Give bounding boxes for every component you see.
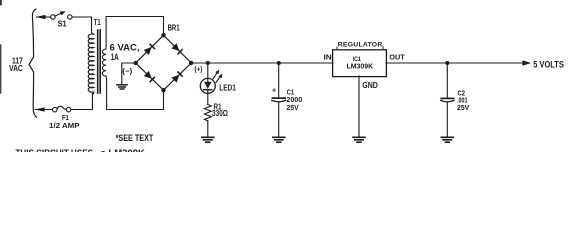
- svg-text:25V: 25V: [286, 103, 299, 112]
- svg-text:LM309K: LM309K: [347, 61, 374, 70]
- wire: tap to LED: [207, 63, 209, 78]
- ground (regulator): [353, 137, 365, 142]
- capacitor C2: [446, 63, 448, 98]
- ground (R1): [202, 137, 214, 142]
- svg-text:+: +: [272, 86, 277, 95]
- svg-text:5 VOLTS: 5 VOLTS: [533, 60, 564, 70]
- svg-text:(+): (+): [194, 64, 202, 73]
- capacitor C1: [278, 63, 280, 98]
- node: C1 tap: [277, 61, 281, 65]
- svg-text:REGULATOR: REGULATOR: [338, 41, 383, 48]
- node: LED tap: [206, 61, 210, 65]
- wire: fuse to primary bottom: [71, 94, 93, 110]
- transformer core: [97, 30, 99, 93]
- page border artifact top: [0, 0, 2, 5]
- diode bottom-right: [171, 71, 183, 83]
- transformer T1 primary winding: [88, 34, 94, 94]
- resistor R1: [204, 105, 211, 121]
- AC line brace: [29, 9, 37, 117]
- switch S1: [51, 15, 55, 19]
- diode top-left: [144, 43, 156, 55]
- fuse F1: [53, 107, 58, 112]
- wire: secondary top rail to bridge: [106, 17, 163, 36]
- svg-text:IN: IN: [324, 52, 332, 61]
- svg-text:330Ω: 330Ω: [212, 109, 228, 118]
- wire: bottom cord with plug arrow: [35, 109, 52, 111]
- wire: S1 to transformer primary: [72, 17, 94, 34]
- LED1 light arrows: [213, 73, 217, 79]
- node: bridge bottom: [161, 88, 165, 92]
- svg-text:LED1: LED1: [219, 84, 236, 93]
- svg-text:GND: GND: [362, 81, 378, 90]
- svg-text:1/2 AMP: 1/2 AMP: [49, 121, 80, 130]
- wire: regulator gnd: [358, 76, 360, 137]
- svg-text:OUT: OUT: [389, 52, 405, 61]
- wire: regulator out to output arrow: [386, 62, 524, 64]
- wire R1 to ground: [207, 121, 209, 137]
- svg-text:(−): (−): [122, 66, 133, 75]
- svg-text:VAC: VAC: [9, 63, 23, 73]
- svg-text:BR1: BR1: [168, 24, 180, 33]
- node: bridge top: [161, 33, 165, 37]
- wire: main positive rail to regulator: [191, 62, 333, 64]
- bridge rectifier BR1 diamond: [136, 35, 192, 90]
- svg-text:1A: 1A: [111, 52, 119, 62]
- output arrow: [522, 60, 531, 65]
- svg-text:THIS CIRCUIT USES: THIS CIRCUIT USES: [16, 148, 94, 152]
- wire: top line cord with plug arrow: [37, 16, 51, 18]
- svg-text:25V: 25V: [457, 103, 470, 112]
- page border artifact left: [0, 45, 2, 93]
- LED1: [200, 78, 215, 93]
- node: C2 tap: [445, 61, 449, 65]
- ground (C1): [273, 137, 285, 142]
- svg-text:T1: T1: [94, 18, 101, 27]
- ground (C2): [441, 137, 453, 142]
- regulator IC1 box: [333, 50, 387, 77]
- svg-text:*SEE TEXT: *SEE TEXT: [116, 133, 154, 143]
- node: bridge left: [134, 61, 138, 65]
- svg-text:a LM309K: a LM309K: [101, 148, 145, 152]
- node: bridge right: [189, 61, 193, 65]
- wire LED to R1: [207, 93, 209, 105]
- ground (bridge minus): [117, 85, 127, 89]
- transformer T1 secondary winding: [102, 17, 106, 110]
- wire: bridge minus to ground: [122, 63, 136, 84]
- wire: secondary bottom to bridge: [107, 90, 164, 109]
- diode bottom-left: [144, 71, 156, 83]
- diode top-right: [171, 43, 183, 55]
- svg-text:S1: S1: [58, 19, 67, 28]
